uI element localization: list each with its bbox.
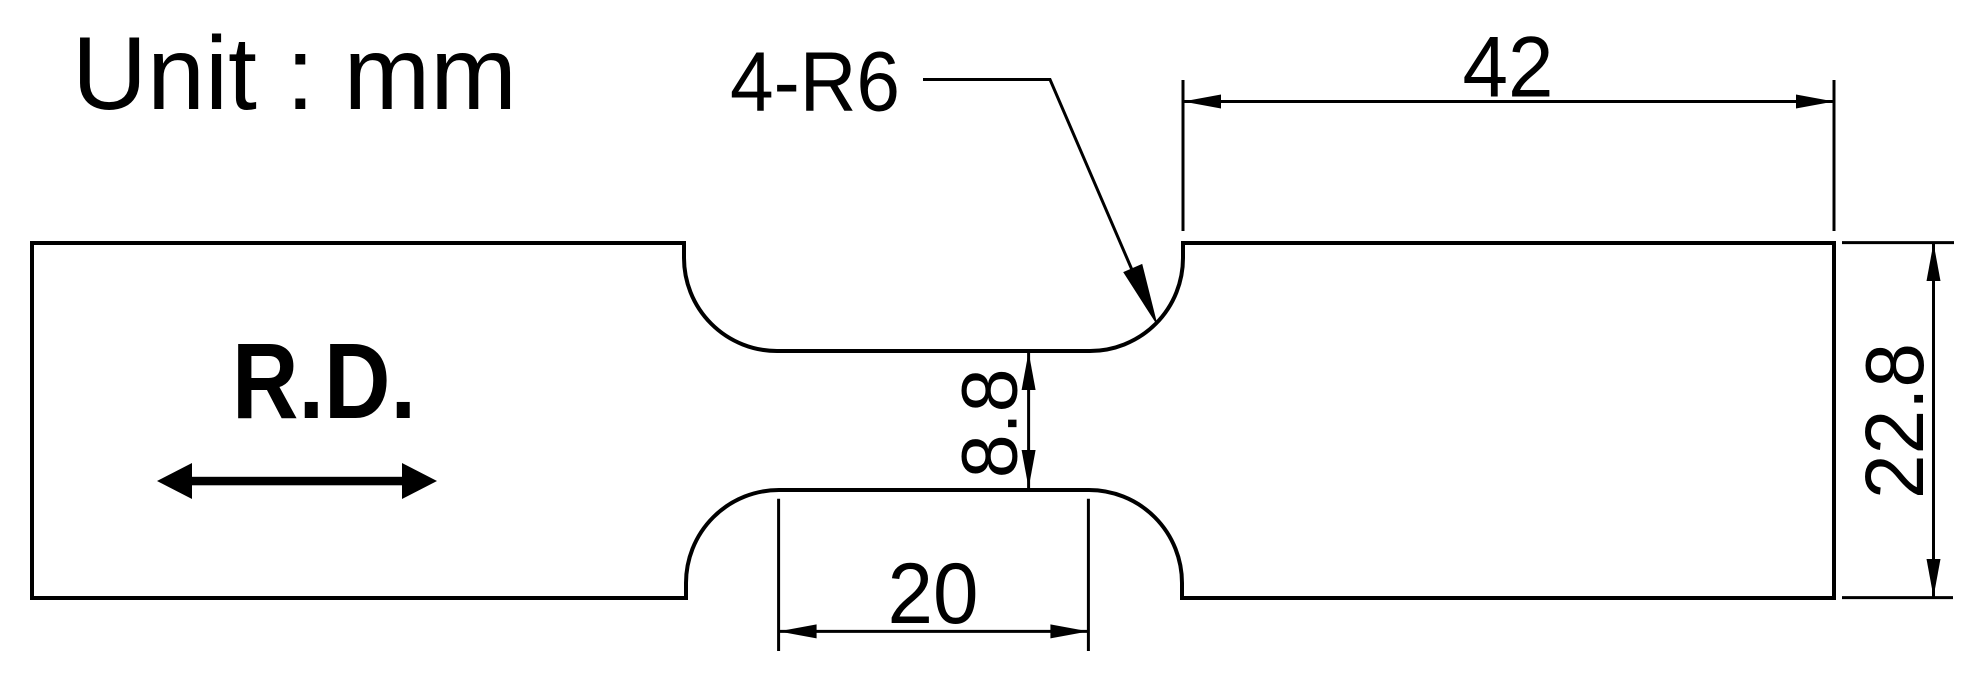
dimension 8.8: arrowheads bbox=[1022, 352, 1036, 390]
dimension 20: dimension line bbox=[779, 630, 1089, 633]
svg-text:42: 42 bbox=[1463, 20, 1554, 116]
specimen outline bbox=[32, 243, 1834, 598]
svg-text:Unit : mm: Unit : mm bbox=[72, 16, 517, 132]
dimension 42: dimension line bbox=[1183, 100, 1834, 103]
svg-text:R.D.: R.D. bbox=[232, 320, 416, 441]
dimension 22.8: dimension line bbox=[1932, 244, 1935, 597]
dimension 22.8: arrowheads bbox=[1927, 243, 1941, 281]
dimension 20: arrowheads bbox=[779, 624, 817, 638]
dimension 22.8: extension lines bbox=[1842, 243, 1954, 598]
dimension 42: arrowheads bbox=[1183, 95, 1221, 109]
svg-text:8.8: 8.8 bbox=[945, 368, 1034, 478]
dimension 8.8: dimension line bbox=[1027, 352, 1030, 488]
dimension 42: extension lines bbox=[1183, 80, 1834, 231]
svg-text:20: 20 bbox=[888, 546, 979, 642]
dimension 20: extension lines bbox=[779, 499, 1089, 651]
svg-text:22.8: 22.8 bbox=[1848, 343, 1941, 499]
leader line of 4-R6 bbox=[923, 80, 1148, 308]
svg-text:4-R6: 4-R6 bbox=[730, 35, 900, 129]
rolling-direction double arrow bbox=[157, 463, 437, 499]
leader arrowhead bbox=[1124, 265, 1156, 322]
